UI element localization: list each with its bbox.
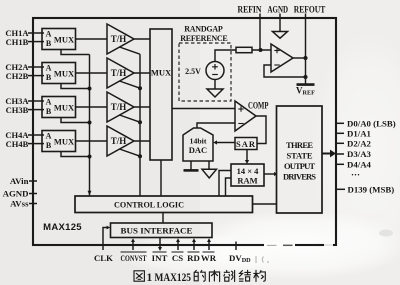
dashed box bandgap reference xyxy=(179,43,231,101)
pin AVss xyxy=(29,203,37,205)
svg-text:T/H: T/H xyxy=(111,68,127,78)
svg-text:D3/A3: D3/A3 xyxy=(347,149,372,159)
svg-text:MUX: MUX xyxy=(151,68,172,78)
wire TH3 hold-control tail xyxy=(120,115,141,122)
svg-text:A: A xyxy=(46,98,52,107)
svg-text:OUTPUT: OUTPUT xyxy=(284,161,315,171)
wire TH4 hold-control tail xyxy=(120,149,141,156)
wire MUX2 output xyxy=(76,72,108,74)
wire MUX1 output xyxy=(76,38,108,40)
hanzi nei xyxy=(209,270,219,281)
svg-text:A: A xyxy=(46,30,52,39)
svg-text:···: ··· xyxy=(351,170,360,180)
hanzi de xyxy=(194,270,198,280)
wire CH2A input xyxy=(28,66,44,68)
label bandgap reference xyxy=(180,25,228,44)
T/H amplifier TH2 xyxy=(107,58,134,88)
svg-text:CH3B: CH3B xyxy=(6,105,29,115)
svg-text:BUS INTERFACE: BUS INTERFACE xyxy=(121,226,193,236)
svg-text:AGND: AGND xyxy=(268,5,289,15)
wire reference output xyxy=(215,50,236,62)
arrow select bus into control logic xyxy=(88,191,92,196)
wire SAR to RAM xyxy=(246,150,248,161)
pin D0/A0 (LSB) xyxy=(337,122,345,124)
wire T/H control bus xyxy=(139,54,141,196)
ground (bandgap source) xyxy=(207,80,223,98)
pin D3/A3 xyxy=(337,153,345,155)
wire TH2 hold-control tail xyxy=(120,81,141,88)
wire MUX3 select xyxy=(61,118,90,123)
wire mux-select bus xyxy=(89,55,91,196)
wire CH1B input xyxy=(28,41,44,43)
svg-text:DAC: DAC xyxy=(189,145,207,155)
T/H amplifier TH3 xyxy=(107,92,134,122)
wire CH3B input xyxy=(28,109,44,111)
svg-text:RANDGAP: RANDGAP xyxy=(184,25,223,34)
wire CH4B input xyxy=(28,143,44,145)
pin D2/A2 xyxy=(337,142,345,144)
ground (DAC bar) xyxy=(184,161,199,170)
wire TH4 output xyxy=(134,140,150,142)
wire WR xyxy=(208,242,210,251)
svg-text:MAX125: MAX125 xyxy=(43,222,82,233)
node REFOUT junction xyxy=(303,56,307,60)
node select ch4 xyxy=(88,155,92,159)
wire MUX4 output xyxy=(76,140,108,142)
T/H amplifier TH4 xyxy=(107,126,134,156)
svg-text:MUX: MUX xyxy=(54,35,75,45)
wire SAR to DAC xyxy=(217,142,236,144)
svg-text:REFIN: REFIN xyxy=(238,5,262,15)
svg-text:14 × 4: 14 × 4 xyxy=(237,166,260,176)
wire control logic to RAM 1 xyxy=(219,171,231,197)
wire INT xyxy=(159,238,161,248)
svg-text:D0/A0 (LSB): D0/A0 (LSB) xyxy=(347,118,396,128)
op-amp U1 reference buffer xyxy=(271,44,293,72)
wire MUX2 select xyxy=(61,84,90,89)
pin DVDD xyxy=(235,242,237,251)
wire TH2 output xyxy=(134,72,150,74)
hanzi gou xyxy=(254,270,259,281)
node select ch2 xyxy=(88,87,92,91)
wire CH3A input xyxy=(28,100,44,102)
wire CONVST xyxy=(132,242,134,251)
wire CLK xyxy=(103,228,107,251)
hanzi tu xyxy=(134,271,144,281)
resistor R1 xyxy=(236,47,252,52)
wire CH2B input xyxy=(28,75,44,77)
svg-text:B: B xyxy=(46,39,52,48)
register SAR xyxy=(235,138,257,150)
voltage source 2.5V xyxy=(206,62,224,80)
wire U-MUX output to comparator xyxy=(172,108,235,110)
wire U-MUX to control logic xyxy=(160,160,162,196)
node th ch3 xyxy=(138,120,142,124)
svg-text:MUX: MUX xyxy=(54,103,75,113)
faded bottom border patch xyxy=(264,242,295,249)
svg-text:AVss: AVss xyxy=(10,199,29,209)
svg-text:RAM: RAM xyxy=(237,176,257,186)
svg-text:MUX: MUX xyxy=(54,137,75,147)
wire TH1 hold-control tail xyxy=(120,47,141,54)
svg-text:MAX125: MAX125 xyxy=(155,272,192,284)
wire RD xyxy=(193,242,195,251)
svg-text:INT: INT xyxy=(152,253,168,263)
node th ch2 xyxy=(138,86,142,90)
svg-text:COMP: COMP xyxy=(248,101,269,111)
block control logic xyxy=(75,196,253,213)
svg-text:D139 (MSB): D139 (MSB) xyxy=(348,184,395,194)
svg-text:A: A xyxy=(46,64,52,73)
ground VREF xyxy=(297,83,315,86)
wire comparator output to SAR xyxy=(256,116,266,144)
wire U1 feedback xyxy=(264,65,306,77)
wire TH1 output xyxy=(134,38,150,40)
wire CH1A input xyxy=(28,32,44,34)
svg-text:CH2B: CH2B xyxy=(6,71,29,81)
hanzi bu xyxy=(224,270,230,281)
caption: figure 1 MAX125 internal structure xyxy=(134,270,265,281)
wire CH4A input xyxy=(28,134,44,136)
wire control logic to bus interface xyxy=(162,213,164,224)
node th ch4 xyxy=(138,154,142,158)
pin AVin xyxy=(29,180,37,182)
svg-text:T/H: T/H xyxy=(111,136,127,146)
ground arrow AGND xyxy=(273,32,288,39)
node select ch3 xyxy=(88,121,92,125)
mux MUX1 input select xyxy=(42,29,76,50)
mux MUX4 input select xyxy=(42,131,76,152)
svg-text:B: B xyxy=(46,107,52,116)
svg-text:THREE: THREE xyxy=(286,140,313,150)
wire MUX1 select xyxy=(61,50,90,55)
svg-text:SAR: SAR xyxy=(236,139,256,149)
svg-text:D1/A1: D1/A1 xyxy=(347,128,371,138)
block bus interface xyxy=(111,223,213,238)
svg-text:WR: WR xyxy=(201,253,217,263)
dac 14bit DAC xyxy=(183,128,213,161)
wire R1 to buffer input xyxy=(252,49,271,51)
svg-text:CS: CS xyxy=(172,253,183,263)
node REFIN junction xyxy=(259,48,263,52)
svg-text:B: B xyxy=(46,141,52,150)
svg-text:D2/A2: D2/A2 xyxy=(347,138,372,148)
svg-text:B: B xyxy=(46,73,52,82)
svg-text:T/H: T/H xyxy=(111,102,127,112)
svg-text:STATE: STATE xyxy=(287,150,313,160)
svg-text:REFERENCE: REFERENCE xyxy=(180,34,228,43)
wire DAC output to comparator xyxy=(197,123,235,128)
svg-text:CH1B: CH1B xyxy=(6,37,29,47)
ground (DAC triangle) xyxy=(202,161,217,178)
watermark remnant marks xyxy=(256,256,269,263)
block three-state output drivers xyxy=(277,106,323,213)
svg-text:2.5V: 2.5V xyxy=(185,67,201,76)
wire data bus output arrow xyxy=(322,153,331,155)
wire U1 output xyxy=(293,57,306,59)
wire MUX4 select xyxy=(61,152,90,157)
pin D4/A4 xyxy=(337,163,345,165)
wire MUX3 output xyxy=(76,106,108,108)
faint smudge xyxy=(379,230,393,237)
svg-text:T/H: T/H xyxy=(111,34,127,44)
svg-text:RD: RD xyxy=(187,253,200,263)
pin D13 (MSB) xyxy=(337,188,345,190)
svg-text:AGND: AGND xyxy=(3,189,29,199)
wire control logic to RAM 2 xyxy=(226,178,232,196)
pin D1/A1 xyxy=(337,132,345,134)
wire TH3 output xyxy=(134,106,150,108)
wire control logic to output drivers xyxy=(253,203,277,205)
node VREF junction xyxy=(303,75,307,79)
wire CS xyxy=(177,242,179,251)
svg-text:CH4B: CH4B xyxy=(6,139,29,149)
svg-text:DRIVERS: DRIVERS xyxy=(283,171,316,181)
mux MUX2 input select xyxy=(42,63,76,84)
pin AGND (supply) xyxy=(29,193,37,195)
chip outline MAX125 xyxy=(33,18,336,245)
svg-text:D4/A4: D4/A4 xyxy=(347,159,372,169)
memory 14x4 RAM xyxy=(231,164,264,186)
svg-text:1: 1 xyxy=(147,272,153,284)
svg-text:A: A xyxy=(46,132,52,141)
wire RAM to output drivers xyxy=(264,173,275,175)
hanzi jie xyxy=(239,271,243,282)
svg-text:AVin: AVin xyxy=(10,176,29,186)
svg-text:CLK: CLK xyxy=(94,253,113,263)
svg-text:CONTROL LOGIC: CONTROL LOGIC xyxy=(114,200,184,210)
comparator COMP xyxy=(235,101,256,131)
svg-text:REFOUT: REFOUT xyxy=(294,5,326,15)
svg-text:MUX: MUX xyxy=(54,69,75,79)
mux U-MUX channel multiplexer xyxy=(150,29,172,160)
svg-text:CONVST: CONVST xyxy=(121,254,147,263)
T/H amplifier TH1 xyxy=(107,24,134,54)
mux MUX3 input select xyxy=(42,97,76,118)
